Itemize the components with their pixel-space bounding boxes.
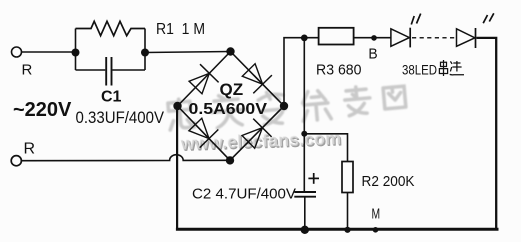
svg-text:38LED: 38LED	[402, 62, 437, 78]
svg-text:0.33UF/400V: 0.33UF/400V	[76, 108, 165, 127]
svg-text:R1 1 M: R1 1 M	[156, 21, 205, 38]
svg-text:M: M	[372, 206, 381, 223]
wire	[76, 29, 146, 71]
wire (to R2)	[304, 134, 347, 162]
node junction (R2 on rail)	[344, 227, 350, 233]
capacitor C1	[76, 57, 146, 86]
svg-text:C1: C1	[101, 89, 122, 106]
resistor R2	[342, 162, 353, 230]
node (bridge top corner)	[226, 47, 234, 55]
svg-text:R2 200K: R2 200K	[362, 173, 415, 190]
node junction (C2 on rail)	[301, 226, 309, 234]
svg-text:R: R	[22, 62, 33, 79]
node (bridge right corner)	[280, 102, 288, 110]
resistor R1	[76, 21, 146, 35]
svg-text:C2 4.7UF/400V: C2 4.7UF/400V	[192, 186, 296, 203]
LED LED1	[391, 14, 421, 48]
diode D1 (bridge, left to top)	[189, 64, 219, 94]
capacitor C2 (polarized)	[294, 173, 319, 230]
terminal R (top)	[12, 47, 22, 57]
wire	[353, 37, 391, 39]
resistor R3	[319, 28, 354, 45]
LED LED2	[457, 13, 494, 48]
wire (dashed, LED string)	[412, 37, 457, 39]
diode D2 (bridge, top to right)	[242, 64, 272, 94]
svg-text:~220V: ~220V	[13, 99, 72, 121]
node junction (left of R1/C1)	[72, 49, 80, 57]
node B	[371, 35, 377, 41]
node junction (top of C2 branch)	[301, 35, 308, 42]
wire with crossover hump	[21, 155, 230, 161]
terminal R (bottom)	[11, 156, 21, 166]
watermark	[168, 86, 406, 130]
bridge rectifier QZ frame	[178, 52, 285, 161]
bottom rail wire	[176, 228, 499, 231]
wire (LED2 to right rail)	[477, 38, 497, 229]
wire	[22, 51, 76, 53]
svg-text:QZ: QZ	[220, 80, 244, 99]
wire (right corner up and to R3)	[284, 38, 319, 106]
svg-text:R: R	[24, 141, 36, 158]
node junction (right of R1/C1)	[141, 49, 149, 57]
node (bridge bottom corner)	[226, 156, 234, 164]
svg-text:R3 680: R3 680	[316, 62, 362, 79]
svg-text:B: B	[368, 46, 377, 63]
wire (left corner down to rail)	[176, 106, 178, 230]
wire (C2 branch vertical)	[303, 38, 305, 192]
node junction (R2 tap)	[301, 131, 307, 137]
node M	[373, 227, 379, 233]
wire	[145, 52, 231, 53]
svg-text:0.5A600V: 0.5A600V	[189, 101, 268, 118]
diode D3 (bridge, left to bottom)	[189, 118, 218, 147]
diode D4 (bridge, bottom to right)	[242, 119, 272, 149]
node (bridge left corner)	[173, 102, 181, 110]
